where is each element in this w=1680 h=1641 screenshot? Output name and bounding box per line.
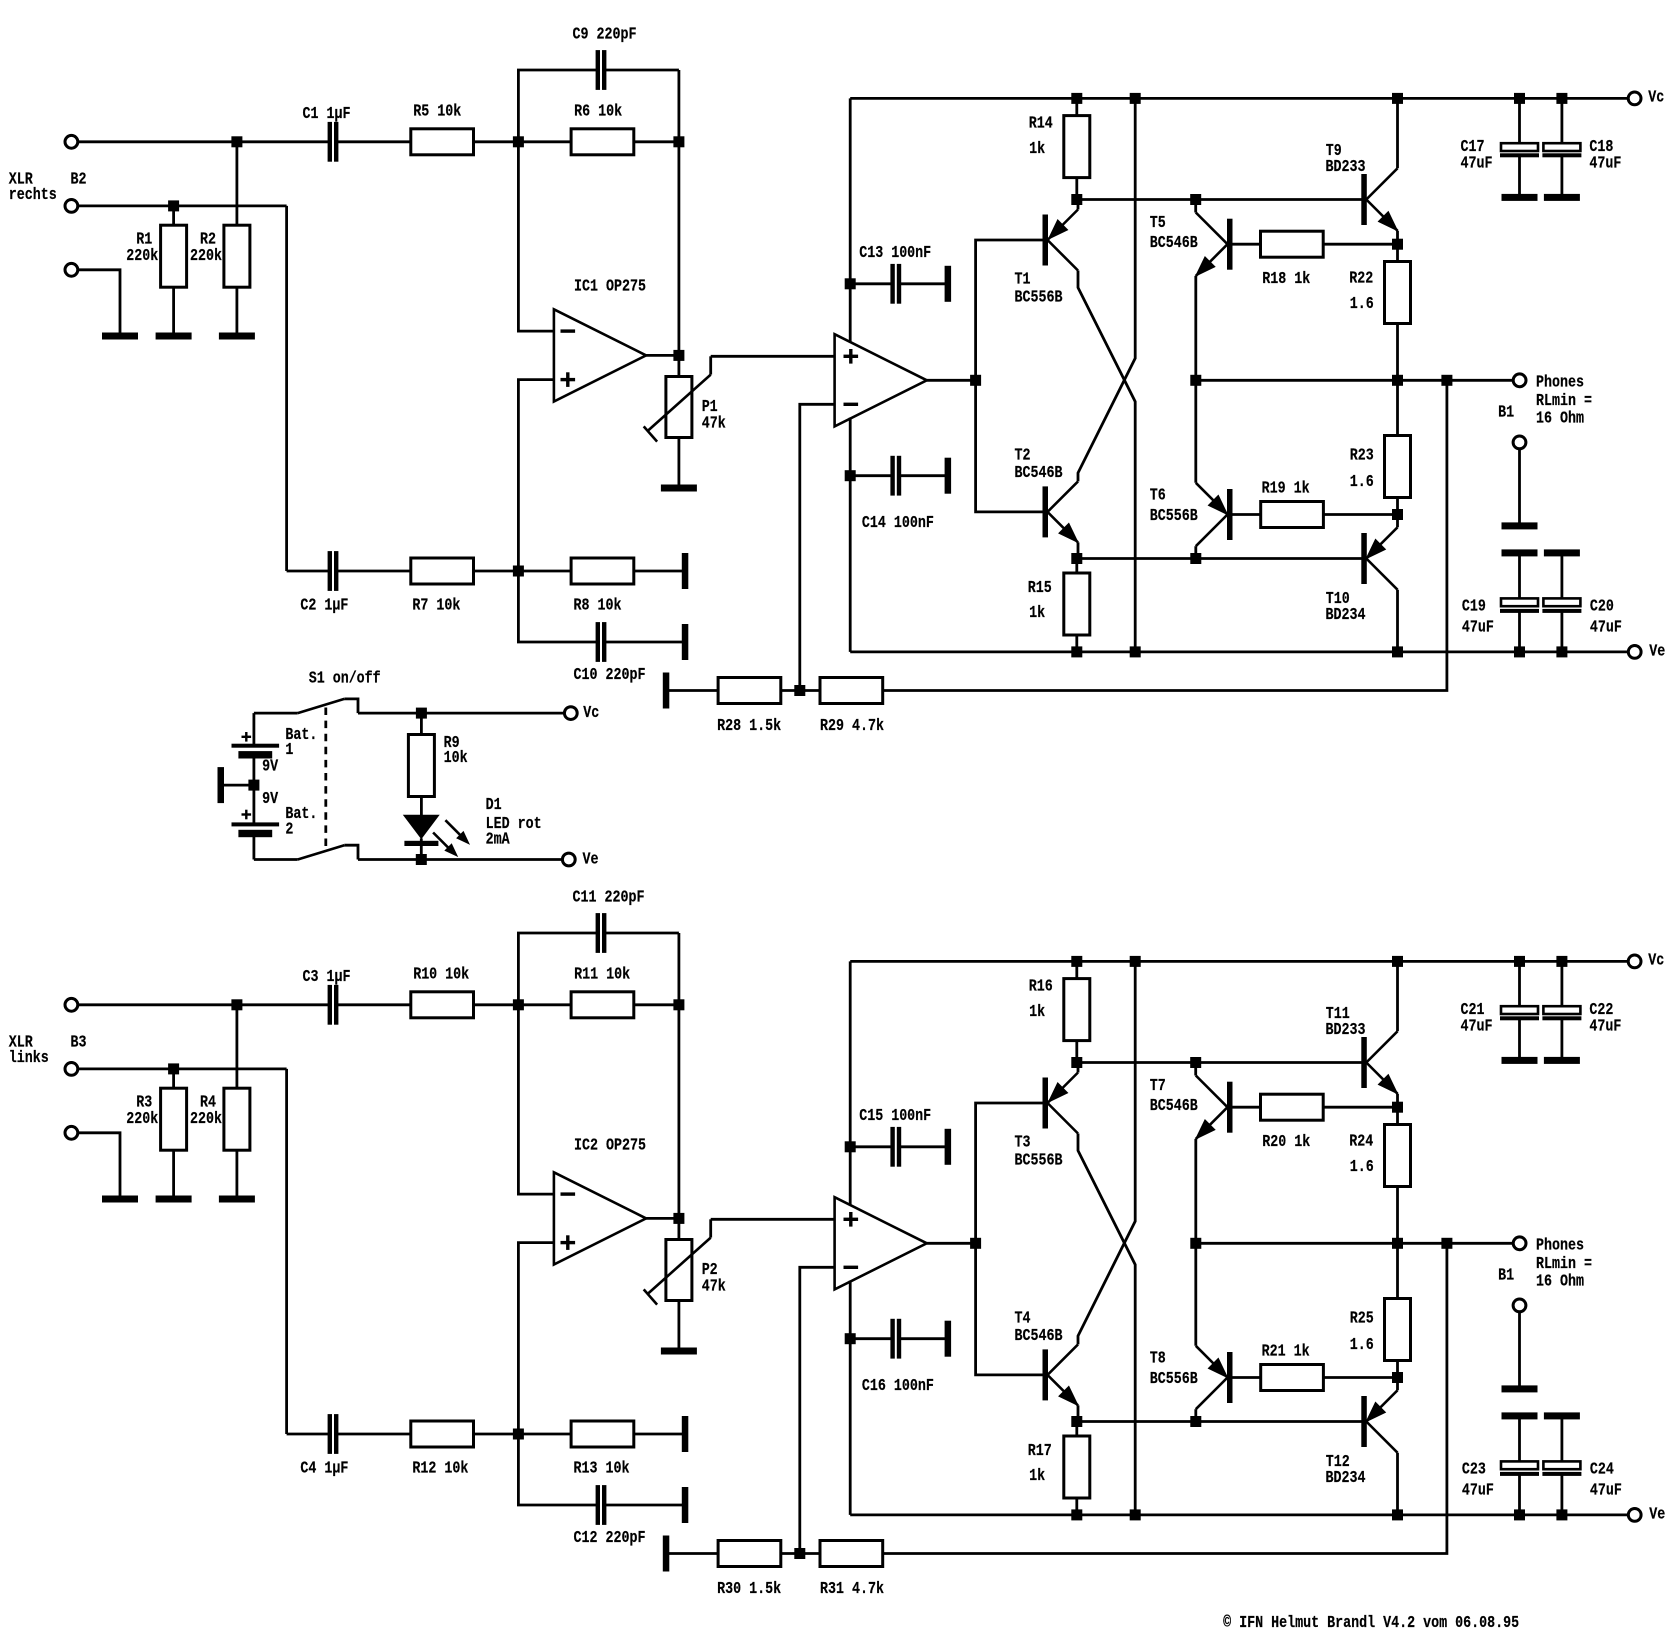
wire booster - input feedback — [800, 1267, 835, 1553]
ground P1 — [661, 485, 696, 491]
transistor T2 BC546B (NPN) — [1043, 487, 1048, 537]
ground B1 — [1502, 523, 1537, 529]
op-amp IC2 OP275 — [554, 1172, 646, 1264]
wire C2 to R7 — [338, 570, 411, 573]
svg-text:47uF: 47uF — [1589, 1016, 1621, 1035]
ground C20 top — [1544, 550, 1579, 556]
resistor R20 1k — [1232, 1106, 1261, 1109]
node feedback takeoff — [1442, 375, 1452, 385]
svg-text:C14 100nF: C14 100nF — [862, 513, 934, 532]
svg-text:S1 on/off: S1 on/off — [309, 669, 381, 688]
wire shield — [78, 1133, 121, 1196]
node feedback divider — [795, 686, 805, 696]
wire R to node A — [474, 1003, 519, 1006]
wire B1 to ground — [1518, 449, 1521, 523]
svg-text:1.6: 1.6 — [1350, 472, 1374, 491]
wire node A to R6 — [518, 140, 571, 143]
resistor R8 10k — [571, 558, 634, 584]
svg-text:R16: R16 — [1029, 977, 1053, 996]
resistor R23 1.6 — [1396, 380, 1399, 435]
svg-text:T8: T8 — [1150, 1349, 1166, 1368]
svg-text:R13 10k: R13 10k — [574, 1459, 630, 1478]
resistor R17 1k — [1075, 1422, 1078, 1437]
XLR connector B3 terminal 1 — [65, 998, 78, 1011]
svg-text:rechts: rechts — [9, 185, 57, 204]
transistor T12 BD234 (PNP power) — [1362, 1397, 1367, 1447]
wire B1 to ground — [1518, 1312, 1521, 1386]
svg-text:C15 100nF: C15 100nF — [859, 1106, 931, 1125]
svg-text:R24: R24 — [1349, 1132, 1373, 1151]
node R15 bottom rail — [1072, 1510, 1082, 1520]
node T9 collector rail — [1393, 956, 1403, 966]
wire op-amp out to T bases — [976, 1103, 1043, 1375]
svg-text:T1: T1 — [1015, 270, 1031, 289]
ground R30 — [663, 1536, 669, 1571]
switch S1 on/off pole 1 — [254, 712, 298, 715]
wire negative boost rail — [850, 1514, 1628, 1517]
wire Vc from switch — [358, 712, 564, 715]
wire R to node A — [474, 140, 519, 143]
svg-text:BC556B: BC556B — [1150, 1369, 1198, 1388]
svg-text:R28 1.5k: R28 1.5k — [717, 716, 781, 735]
node T10 collector rail — [1393, 647, 1403, 657]
wire C to R — [338, 140, 411, 143]
capacitor C14 100nF — [845, 471, 855, 481]
wire C12 to ground — [606, 1504, 682, 1507]
svg-text:220k: 220k — [190, 246, 222, 265]
node T9 collector rail — [1393, 93, 1403, 103]
svg-text:C3 1µF: C3 1µF — [303, 967, 351, 986]
node R14 bottom — [1072, 1058, 1082, 1068]
svg-text:Phones: Phones — [1536, 373, 1584, 392]
wire P2 to ground — [678, 1301, 681, 1349]
svg-text:9V: 9V — [262, 756, 278, 775]
node op-amp output — [674, 350, 684, 360]
terminal Vc — [1628, 92, 1641, 105]
switch S1 mechanical link — [324, 708, 327, 847]
capacitor C24 47uF — [1561, 1419, 1564, 1462]
svg-text:D1: D1 — [486, 795, 502, 814]
XLR connector B3 terminal 3 (shield) — [65, 1126, 78, 1139]
wire R7 to node C — [474, 570, 519, 573]
capacitor C22 47uF — [1557, 956, 1567, 966]
wire left rail — [849, 961, 852, 1204]
node input-cold junction — [169, 201, 179, 211]
svg-text:C23: C23 — [1462, 1460, 1486, 1479]
svg-text:R29 4.7k: R29 4.7k — [820, 716, 884, 735]
svg-text:47k: 47k — [702, 413, 726, 432]
svg-text:RLmin =: RLmin = — [1536, 391, 1592, 410]
svg-text:IC2 OP275: IC2 OP275 — [574, 1135, 646, 1154]
svg-text:B2: B2 — [71, 170, 87, 189]
svg-text:C19: C19 — [1462, 597, 1486, 616]
terminal Vc — [1628, 955, 1641, 968]
ground C12 — [682, 1488, 688, 1523]
svg-text:T4: T4 — [1015, 1309, 1031, 1328]
node C19 rail — [1515, 647, 1525, 657]
wire node A to inverting input — [518, 142, 554, 331]
wire input-cold — [78, 204, 287, 207]
node C19 rail — [1515, 1510, 1525, 1520]
svg-text:47uF: 47uF — [1590, 1481, 1622, 1500]
node R22 phones — [1393, 1238, 1403, 1248]
capacitor C18 47uF — [1557, 93, 1567, 103]
svg-text:R15: R15 — [1028, 578, 1052, 597]
svg-text:C24: C24 — [1590, 1460, 1614, 1479]
svg-text:R6 10k: R6 10k — [574, 102, 622, 121]
svg-text:47k: 47k — [702, 1276, 726, 1295]
capacitor C12 220pF — [518, 1434, 596, 1505]
svg-text:BD233: BD233 — [1326, 157, 1366, 176]
transistor T5 BC546B (NPN) — [1191, 195, 1201, 205]
wire feedback down — [883, 380, 1447, 690]
svg-text:Ve: Ve — [1649, 1504, 1665, 1523]
node op-amp output — [674, 1213, 684, 1223]
wire junction to R — [172, 206, 175, 225]
ground C23 top — [1502, 1413, 1537, 1419]
svg-text:R23: R23 — [1350, 446, 1374, 465]
svg-text:T2: T2 — [1015, 446, 1031, 465]
node R9 top — [416, 708, 426, 718]
svg-text:R18 1k: R18 1k — [1262, 269, 1310, 288]
wire R7 to node C — [474, 1433, 519, 1436]
capacitor C20 47uF — [1561, 556, 1564, 599]
wire booster + input — [711, 355, 835, 358]
svg-text:IC1 OP275: IC1 OP275 — [574, 277, 646, 296]
svg-text:B1: B1 — [1498, 1266, 1514, 1285]
svg-text:47uF: 47uF — [1461, 1016, 1493, 1035]
resistor R12 10k — [411, 1421, 474, 1447]
node T1 cross top rail — [1130, 93, 1140, 103]
svg-text:220k: 220k — [190, 1109, 222, 1128]
ground battery middle — [218, 768, 224, 803]
wire booster output — [927, 379, 976, 382]
svg-text:Ve: Ve — [1649, 641, 1665, 660]
svg-text:1.6: 1.6 — [1350, 294, 1374, 313]
node A (inverting input net) — [513, 137, 523, 147]
node T5 emitter phones — [1191, 1238, 1201, 1248]
svg-text:Phones: Phones — [1536, 1236, 1584, 1255]
svg-text:C20: C20 — [1590, 597, 1614, 616]
capacitor C16 100nF — [845, 1334, 855, 1344]
wire input-hot — [78, 140, 330, 143]
wire C to R — [338, 1003, 411, 1006]
terminal Phones — [1513, 374, 1526, 387]
svg-text:1k: 1k — [1029, 1002, 1045, 1021]
resistor R25 1.6 — [1396, 1243, 1399, 1298]
resistor R24 1.6 — [1396, 1107, 1399, 1124]
wire booster + input — [711, 1218, 835, 1221]
capacitor C11 220pF feedback — [518, 933, 596, 1005]
svg-text:R21 1k: R21 1k — [1262, 1341, 1310, 1360]
svg-text:47uF: 47uF — [1589, 153, 1621, 172]
svg-text:10k: 10k — [444, 748, 468, 767]
wire to ground battery — [224, 784, 254, 787]
wire divider node — [781, 1552, 820, 1555]
svg-text:16 Ohm: 16 Ohm — [1536, 1272, 1584, 1291]
wire input-hot — [78, 1003, 330, 1006]
svg-text:BD233: BD233 — [1326, 1020, 1366, 1039]
svg-text:47uF: 47uF — [1462, 1481, 1494, 1500]
node T2 emitter — [1072, 1417, 1082, 1427]
svg-text:C13 100nF: C13 100nF — [859, 243, 931, 262]
node T1 cross top rail — [1130, 956, 1140, 966]
switch S1 pole 2 — [254, 858, 298, 861]
terminal B1 return — [1513, 1299, 1526, 1312]
resistor R29 4.7k — [820, 678, 883, 704]
node R15 bottom rail — [1072, 647, 1082, 657]
wire phones net — [1196, 1242, 1514, 1245]
potentiometer P1 47k — [678, 355, 681, 376]
svg-text:R25: R25 — [1350, 1309, 1374, 1328]
node R18 right — [1393, 1102, 1403, 1112]
ground C17 — [1502, 194, 1537, 200]
wire R3 to ground — [172, 1150, 175, 1196]
wire op-amp output — [646, 1217, 679, 1220]
svg-text:T7: T7 — [1150, 1076, 1166, 1095]
wire R4 to ground — [235, 1150, 238, 1196]
wire input-cold — [78, 1068, 287, 1071]
wire lower driver rail — [1077, 1420, 1362, 1423]
node A (inverting input net) — [513, 1000, 523, 1010]
terminal Ve — [1628, 1509, 1641, 1522]
svg-text:RLmin =: RLmin = — [1536, 1254, 1592, 1273]
svg-text:C11 220pF: C11 220pF — [573, 888, 645, 907]
node T2 emitter — [1072, 554, 1082, 564]
svg-text:R10 10k: R10 10k — [413, 965, 469, 984]
node C (non-inverting net) — [513, 1429, 523, 1439]
svg-text:R31 4.7k: R31 4.7k — [820, 1579, 884, 1598]
resistor R6 10k feedback — [571, 129, 634, 155]
battery Bat.2 9V — [232, 823, 279, 826]
svg-text:R14: R14 — [1029, 114, 1053, 133]
node T2 cross bottom rail — [1130, 647, 1140, 657]
node C (non-inverting net) — [513, 566, 523, 576]
ground C16 — [945, 1321, 951, 1356]
wire R13 to ground — [634, 1433, 683, 1436]
node T2 cross bottom rail — [1130, 1510, 1140, 1520]
ground C15 — [945, 1129, 951, 1164]
wire R6 to node B — [634, 1003, 679, 1006]
resistor R14 1k — [1072, 93, 1082, 103]
node R14 bottom — [1072, 195, 1082, 205]
ground R28 — [663, 673, 669, 708]
wire R2 to ground — [235, 287, 238, 333]
terminal Ve battery — [562, 853, 575, 866]
wire op-amp out to T bases — [976, 240, 1043, 512]
wire upper driver rail — [1077, 198, 1362, 201]
node R19 right — [1393, 1373, 1403, 1383]
wire C2 to R7 — [338, 1433, 411, 1436]
wire non-inverting input — [518, 1243, 554, 1434]
svg-text:Vc: Vc — [583, 703, 599, 722]
wire junction to R — [172, 1069, 175, 1088]
wire C10 to ground — [606, 641, 682, 644]
svg-text:B3: B3 — [71, 1033, 87, 1052]
svg-text:links: links — [9, 1048, 49, 1067]
ground C18 — [1544, 194, 1579, 200]
svg-text:R11 10k: R11 10k — [574, 965, 630, 984]
resistor R3 220k — [161, 1088, 187, 1150]
capacitor C21 47uF — [1515, 956, 1525, 966]
wire to R-divider — [235, 142, 238, 225]
svg-text:R20 1k: R20 1k — [1262, 1132, 1310, 1151]
svg-text:C4 1µF: C4 1µF — [300, 1459, 348, 1478]
potentiometer P2 47k — [678, 1218, 681, 1239]
capacitor C1 1uF — [328, 122, 331, 161]
ground C22 — [1544, 1057, 1579, 1063]
wire phones net — [1196, 379, 1514, 382]
node battery middle — [249, 780, 259, 790]
node T5 emitter phones — [1191, 375, 1201, 385]
svg-text:T5: T5 — [1150, 213, 1166, 232]
svg-text:BC546B: BC546B — [1015, 463, 1063, 482]
ground R1 — [156, 333, 191, 339]
node input-hot junction — [232, 137, 242, 147]
svg-text:Ve: Ve — [583, 850, 599, 869]
node D1 bottom — [416, 855, 426, 865]
svg-text:© IFN Helmut Brandl V4.2 vom 0: © IFN Helmut Brandl V4.2 vom 06.08.95 — [1223, 1613, 1519, 1632]
wire R1 to ground — [172, 287, 175, 333]
svg-text:B1: B1 — [1498, 403, 1514, 422]
wire node C to R8 — [518, 1433, 571, 1436]
svg-text:BC546B: BC546B — [1150, 1096, 1198, 1115]
XLR connector B2 terminal 2 — [65, 200, 78, 213]
ground shield — [103, 1196, 138, 1202]
svg-text:BC556B: BC556B — [1015, 288, 1063, 307]
ground C21 — [1502, 1057, 1537, 1063]
ground R4 — [219, 1196, 254, 1202]
ground R3 — [156, 1196, 191, 1202]
XLR connector B2 terminal 1 — [65, 135, 78, 148]
svg-text:2: 2 — [285, 819, 293, 838]
transistor T7 BC546B (NPN) — [1191, 1058, 1201, 1068]
svg-text:R12 10k: R12 10k — [412, 1459, 468, 1478]
ground C13 — [945, 266, 951, 301]
XLR connector B2 terminal 3 (shield) — [65, 263, 78, 276]
capacitor C2 1uF — [287, 570, 329, 573]
resistor R13 10k — [571, 1421, 634, 1447]
svg-text:R30 1.5k: R30 1.5k — [717, 1579, 781, 1598]
svg-text:Vc: Vc — [1648, 88, 1664, 107]
wire R28 to ground — [669, 689, 718, 692]
capacitor C17 47uF — [1515, 93, 1525, 103]
svg-text:C1 1µF: C1 1µF — [303, 104, 351, 123]
svg-text:9V: 9V — [262, 789, 278, 808]
svg-text:R8 10k: R8 10k — [574, 596, 622, 615]
node feedback divider — [795, 1549, 805, 1559]
wire upper driver rail — [1077, 1061, 1362, 1064]
svg-text:1: 1 — [285, 740, 293, 759]
capacitor C10 220pF — [518, 571, 596, 642]
ground R2 — [219, 333, 254, 339]
resistor R30 1.5k — [718, 1541, 781, 1567]
wire divider node — [781, 689, 820, 692]
battery Bat.1 9V — [252, 713, 255, 744]
svg-text:R17: R17 — [1028, 1441, 1052, 1460]
wire R8 to ground — [634, 570, 683, 573]
capacitor C15 100nF — [845, 1142, 855, 1152]
wire booster output — [927, 1242, 976, 1245]
resistor R10 10k — [411, 992, 474, 1018]
svg-text:BD234: BD234 — [1326, 605, 1366, 624]
svg-text:47uF: 47uF — [1462, 618, 1494, 637]
ground C10 — [682, 625, 688, 660]
wire Ve from switch — [358, 858, 562, 861]
terminal Phones — [1513, 1237, 1526, 1250]
op-amp booster stage — [835, 1197, 927, 1289]
transistor T6 BC556B (PNP) — [1228, 490, 1233, 540]
wire P1 to ground — [678, 438, 681, 486]
capacitor C4 1uF — [287, 1433, 329, 1436]
svg-text:47uF: 47uF — [1590, 618, 1622, 637]
svg-text:BC556B: BC556B — [1015, 1151, 1063, 1170]
node T10 collector rail — [1393, 1510, 1403, 1520]
wire node C to R8 — [518, 570, 571, 573]
node C20 rail — [1557, 1510, 1567, 1520]
wire to R-divider — [235, 1005, 238, 1088]
svg-text:C12 220pF: C12 220pF — [574, 1528, 646, 1547]
wire positive boost rail — [850, 97, 1628, 100]
svg-text:BC546B: BC546B — [1150, 233, 1198, 252]
node R19 right — [1393, 510, 1403, 520]
wire battery bottom — [252, 837, 255, 860]
resistor R16 1k — [1072, 956, 1082, 966]
ground C14 — [945, 458, 951, 493]
resistor R5 10k — [411, 129, 474, 155]
wire shield — [78, 270, 121, 333]
node R18 right — [1393, 239, 1403, 249]
svg-text:16 Ohm: 16 Ohm — [1536, 409, 1584, 428]
svg-text:Vc: Vc — [1648, 951, 1664, 970]
wire negative boost rail — [850, 651, 1628, 654]
wire node B down — [678, 70, 681, 355]
svg-text:1.6: 1.6 — [1350, 1157, 1374, 1176]
resistor R7 10k — [411, 558, 474, 584]
resistor R1 220k — [161, 225, 187, 287]
svg-text:C16 100nF: C16 100nF — [862, 1376, 934, 1395]
ground shield — [103, 333, 138, 339]
svg-text:C9 220pF: C9 220pF — [573, 25, 637, 44]
node C20 rail — [1557, 647, 1567, 657]
transistor T3 BC556B (PNP) — [1043, 1078, 1048, 1128]
resistor R18 1k — [1232, 243, 1261, 246]
wire positive boost rail — [850, 960, 1628, 963]
wire node A to R6 — [518, 1003, 571, 1006]
node feedback takeoff — [1442, 1238, 1452, 1248]
resistor R19 1k — [1232, 513, 1261, 516]
resistor R9 10k — [420, 713, 423, 734]
svg-text:R5 10k: R5 10k — [413, 102, 461, 121]
wire input-cold down — [285, 206, 288, 571]
capacitor C9 220pF feedback — [518, 70, 596, 142]
wire booster - input feedback — [800, 404, 835, 690]
resistor R31 4.7k — [820, 1541, 883, 1567]
wire non-inverting input — [518, 380, 554, 571]
XLR connector B3 terminal 2 — [65, 1063, 78, 1076]
op-amp IC1 OP275 — [554, 309, 646, 401]
transistor T8 BC556B (PNP) — [1228, 1353, 1233, 1403]
svg-text:C10 220pF: C10 220pF — [574, 665, 646, 684]
resistor R15 1k — [1075, 559, 1078, 574]
ground R8 — [682, 554, 688, 589]
wire node A to inverting input — [518, 1005, 554, 1194]
terminal B1 return — [1513, 436, 1526, 449]
wire battery middle — [252, 758, 255, 823]
capacitor C19 47uF — [1518, 556, 1521, 599]
svg-text:1.6: 1.6 — [1350, 1335, 1374, 1354]
wire R6 to node B — [634, 140, 679, 143]
